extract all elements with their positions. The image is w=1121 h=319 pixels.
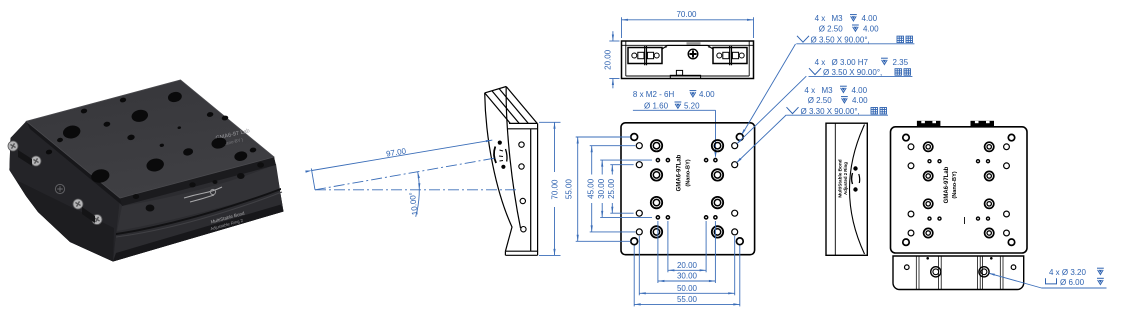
flange counterbores (931, 267, 941, 277)
narrow side view logo (853, 166, 857, 170)
callout leader 2 (738, 76, 807, 143)
photo left face lower shade (16, 180, 114, 262)
svg-text:55.00: 55.00 (677, 295, 698, 304)
svg-text:4.00: 4.00 (862, 14, 878, 23)
callout leader 3 (737, 115, 786, 162)
side view engraved logo (498, 141, 506, 169)
angular dimension 10.00 deg arc (416, 172, 420, 217)
callout 4 x O3.20 leader (990, 273, 1042, 288)
dimension 25.00 plan left (610, 164, 633, 166)
bottom view top tabs (917, 121, 941, 127)
photo plate side band right (120, 157, 276, 206)
svg-text:M3: M3 (822, 86, 834, 95)
photo plate side band left (26, 121, 123, 206)
svg-text:4 x: 4 x (815, 14, 826, 23)
plan small circles (636, 143, 642, 149)
photo gap curve (116, 188, 281, 235)
plan view square (621, 123, 755, 255)
side view holes (519, 142, 524, 147)
svg-text:Ø 2.50: Ø 2.50 (808, 96, 833, 105)
svg-text:Ø 6.00: Ø 6.00 (1060, 278, 1085, 287)
flange divider lines (916, 256, 1003, 290)
svg-text:4 x: 4 x (815, 58, 826, 67)
plan large counterbores (651, 140, 662, 151)
svg-text:4.00: 4.00 (699, 90, 715, 99)
svg-text:Ø 3.50 X 90.00°,: Ø 3.50 X 90.00°, (811, 36, 870, 45)
svg-text:Ø 3.30 X 90.00°,: Ø 3.30 X 90.00°, (801, 107, 860, 116)
svg-text:M3: M3 (832, 14, 844, 23)
svg-text:Ø 3.00 H7: Ø 3.00 H7 (832, 58, 869, 67)
elevation center screw (688, 49, 698, 59)
svg-text:4 x: 4 x (804, 86, 815, 95)
side view outer arc (485, 93, 512, 251)
bottom view square (891, 127, 1028, 253)
svg-text:GMA6-97Lab: GMA6-97Lab (944, 166, 950, 203)
svg-text:Ø 2.50: Ø 2.50 (819, 25, 844, 34)
svg-text:8 x M2 - 6H: 8 x M2 - 6H (633, 90, 675, 99)
narrow side view arc (850, 125, 865, 255)
dimension 55.00 plan bottom (633, 246, 635, 307)
flange top dots (926, 257, 929, 260)
svg-text:20.00: 20.00 (677, 261, 698, 270)
side view tilted platform lines (485, 93, 511, 124)
svg-text:GMA6-97Lab: GMA6-97Lab (677, 154, 683, 191)
photo bottom strip (113, 205, 284, 262)
product photo: isometric stage (8, 80, 284, 262)
narrow side view (826, 123, 867, 255)
photo flank band with lens (117, 164, 280, 231)
dimension 45.00 plan left (590, 145, 636, 147)
elevation gray recess (687, 42, 701, 45)
photo front band holes (133, 162, 264, 211)
elevation right clamp block (713, 46, 747, 65)
svg-text:55.00: 55.00 (564, 179, 573, 200)
dimension 30.00 plan left (600, 159, 652, 161)
side view: curved goniometer profile (485, 87, 538, 256)
photo left face (9, 121, 120, 261)
photo dark screw slots (18, 150, 32, 166)
center line inclined 10deg (dash-dot) (315, 158, 496, 190)
dimension 70.00 top (621, 17, 623, 38)
flange small holes (905, 265, 910, 270)
dimension 50.00 plan bottom (638, 236, 640, 295)
side view dimension 70.00 (539, 121, 561, 123)
photo top face holes (45, 91, 256, 185)
svg-text:Ø 3.50 X 90.00°,: Ø 3.50 X 90.00°, (823, 68, 882, 77)
callout leader 1 (743, 44, 796, 134)
svg-text:20.00: 20.00 (603, 49, 612, 70)
dimension 20.00 plan bottom (667, 221, 669, 272)
svg-text:4 x Ø 3.20: 4 x Ø 3.20 (1049, 268, 1086, 277)
svg-text:70.00: 70.00 (550, 179, 559, 200)
bottom view corner holes (903, 134, 909, 140)
svg-text:5.20: 5.20 (684, 102, 700, 111)
svg-text:50.00: 50.00 (677, 284, 698, 293)
elevation left clamp block (628, 46, 662, 65)
bottom view screws (924, 142, 933, 151)
photo silver screws (8, 141, 18, 151)
photo top face (26, 80, 274, 198)
svg-text:4.00: 4.00 (852, 96, 868, 105)
photo engraved logo on curve (184, 187, 222, 202)
svg-text:25.00: 25.00 (607, 178, 616, 199)
dimension 30.00 plan bottom (657, 221, 659, 283)
svg-text:MultiStable Bond: MultiStable Bond (838, 159, 843, 197)
dimension 55.00 plan left (576, 136, 631, 138)
svg-text:4.00: 4.00 (852, 86, 868, 95)
dimension 20.00 left (609, 40, 619, 42)
svg-text:4.00: 4.00 (863, 25, 879, 34)
center line horizontal (dash-dot) (315, 189, 517, 191)
svg-text:30.00: 30.00 (677, 272, 698, 281)
elevation lip and inner lines (622, 41, 754, 76)
bottom view tiny holes (928, 160, 931, 163)
svg-text:(Nano-BY): (Nano-BY) (952, 171, 958, 198)
svg-text:30.00: 30.00 (597, 178, 606, 199)
elevation view box (622, 41, 754, 79)
side view top edge (485, 87, 507, 93)
plan tiny holes (656, 159, 659, 162)
svg-text:70.00: 70.00 (676, 10, 697, 19)
dimension 97.00 (311, 168, 315, 189)
elevation bottom tab (676, 70, 682, 75)
svg-text:Ø 1.60: Ø 1.60 (644, 102, 669, 111)
flange below bottom view (893, 256, 1024, 290)
svg-text:(Nano-BY): (Nano-BY) (686, 159, 692, 186)
plan corner holes (631, 134, 638, 141)
svg-text:2.35: 2.35 (893, 58, 909, 67)
bottom view small circles (908, 144, 914, 150)
side view inner arc (506, 87, 520, 229)
svg-text:Adjusted 2 Ring: Adjusted 2 Ring (843, 162, 848, 195)
photo knob (55, 184, 64, 193)
photo silhouette (9, 80, 283, 262)
side view bottom bar (505, 251, 537, 255)
svg-text:45.00: 45.00 (586, 178, 595, 199)
side view column band (508, 123, 538, 128)
side view right column edges (531, 123, 538, 255)
elevation recess outline (662, 45, 713, 49)
photo front-right face (113, 157, 284, 262)
